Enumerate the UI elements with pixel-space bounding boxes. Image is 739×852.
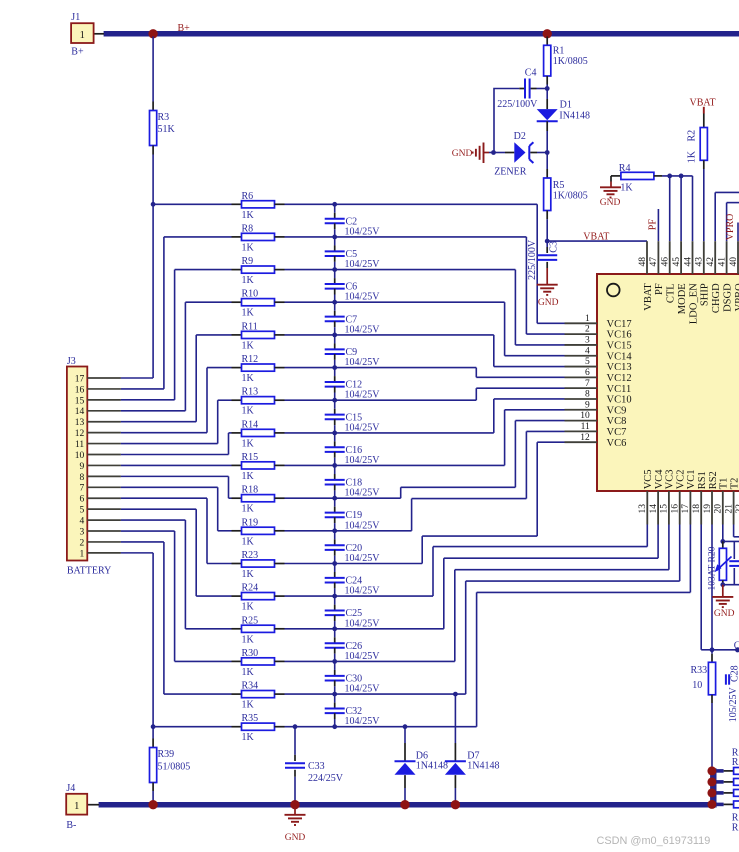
junction C4/D2/GND bbox=[491, 150, 496, 155]
svg-text:12: 12 bbox=[75, 429, 85, 439]
capacitor C29 clipped at right edge bbox=[733, 541, 735, 559]
svg-text:BATTERY: BATTERY bbox=[67, 566, 111, 577]
svg-text:PF: PF bbox=[654, 283, 665, 295]
svg-text:IN4148: IN4148 bbox=[559, 111, 590, 122]
resistor R23 1K bbox=[232, 563, 242, 565]
wire B- bus bbox=[99, 802, 717, 808]
wire row R9 to IC pin 3 bbox=[285, 269, 516, 271]
svg-text:R24: R24 bbox=[242, 583, 259, 594]
svg-text:10: 10 bbox=[75, 451, 85, 461]
junction C33 on row R35 bbox=[293, 724, 298, 729]
resistor R5 1K/0805 bbox=[546, 153, 548, 170]
junction row R25 at capacitor column bbox=[332, 626, 337, 631]
junction branch 2 bbox=[707, 777, 716, 786]
wire J3 pin16 to row R8 bbox=[121, 388, 164, 390]
junction row R8 at capacitor column bbox=[332, 235, 337, 240]
svg-text:RS1: RS1 bbox=[697, 471, 708, 489]
capacitor C19 104/25V bbox=[334, 498, 336, 507]
svg-text:104/25V: 104/25V bbox=[345, 488, 381, 499]
svg-text:VC1: VC1 bbox=[686, 469, 697, 489]
svg-text:VC10: VC10 bbox=[607, 395, 632, 406]
IC U1 pin 18 RS1 bbox=[700, 491, 702, 525]
wire J3 pin8 to row R18 bbox=[121, 475, 229, 477]
wire row R18 to IC pin 10 bbox=[285, 497, 401, 499]
svg-text:VC13: VC13 bbox=[607, 362, 632, 373]
svg-text:CTL: CTL bbox=[666, 283, 677, 303]
svg-text:GND: GND bbox=[714, 609, 735, 619]
svg-text:VC16: VC16 bbox=[607, 330, 632, 341]
wire J3 pin5 to row R24 bbox=[121, 508, 196, 510]
wire RS node to right edge C27 bbox=[712, 649, 739, 651]
svg-text:R6: R6 bbox=[242, 191, 254, 202]
svg-text:GND: GND bbox=[452, 149, 473, 159]
svg-text:9: 9 bbox=[585, 400, 590, 410]
wire IC pin 41 to right edge bbox=[726, 203, 728, 242]
ground symbol left of D2 bbox=[483, 143, 485, 164]
capacitor C26 104/25V bbox=[334, 629, 336, 638]
capacitor C12 104/25V bbox=[334, 368, 336, 377]
svg-text:224/25V: 224/25V bbox=[308, 773, 344, 784]
wire J3 pin10 to row R14 bbox=[121, 454, 229, 456]
diode D6 1N4148 bbox=[404, 727, 406, 743]
sense resistor branch 3 bbox=[713, 791, 723, 795]
wire J3 pin7 to row R19 bbox=[121, 486, 218, 488]
wire row R34 to IC pin 16 bbox=[285, 693, 466, 695]
junction R4 line pin45 bbox=[679, 174, 684, 179]
svg-text:4: 4 bbox=[585, 346, 590, 356]
wire row R6 to IC pin 1 bbox=[285, 203, 538, 205]
wire J3 pin6 to row R23 bbox=[121, 497, 207, 499]
wire IC pin 40 VPRO bbox=[737, 223, 739, 242]
IC U1 pin 3 VC15 bbox=[565, 344, 598, 346]
svg-text:10: 10 bbox=[580, 411, 590, 421]
resistor R13 1K bbox=[232, 399, 242, 401]
svg-text:15: 15 bbox=[75, 396, 85, 406]
svg-text:R8: R8 bbox=[242, 223, 254, 234]
wire row R14 to IC pin 8 bbox=[285, 432, 494, 434]
svg-text:44: 44 bbox=[683, 257, 693, 267]
IC U1 pin 16 VC2 bbox=[679, 491, 681, 525]
resistor R24 1K bbox=[232, 595, 242, 597]
svg-text:R1: R1 bbox=[553, 46, 565, 57]
svg-text:104/25V: 104/25V bbox=[345, 651, 381, 662]
wire IC pin 42 to right edge bbox=[714, 192, 716, 241]
svg-text:1N4148: 1N4148 bbox=[467, 760, 499, 771]
ground symbol at R20 bbox=[722, 585, 724, 597]
svg-text:225/100V: 225/100V bbox=[527, 239, 538, 280]
svg-text:3: 3 bbox=[585, 336, 590, 346]
wire row R19 to IC pin 11 bbox=[285, 530, 412, 532]
resistor R34 1K bbox=[232, 693, 242, 695]
junction R39 on B- bus bbox=[148, 800, 157, 809]
svg-text:VC15: VC15 bbox=[607, 341, 632, 352]
wire row R35 to IC pin 17 bbox=[285, 726, 477, 728]
svg-text:1K: 1K bbox=[242, 438, 255, 449]
svg-text:1K: 1K bbox=[242, 569, 255, 580]
svg-text:104/25V: 104/25V bbox=[345, 357, 381, 368]
svg-text:6: 6 bbox=[585, 368, 590, 378]
svg-text:R23: R23 bbox=[242, 550, 259, 561]
svg-text:VC8: VC8 bbox=[607, 416, 627, 427]
svg-text:105/25V: 105/25V bbox=[728, 687, 739, 723]
junction row R19 at capacitor column bbox=[332, 528, 337, 533]
svg-text:104/25V: 104/25V bbox=[345, 520, 381, 531]
svg-text:1K: 1K bbox=[242, 700, 255, 711]
resistor R12 1K bbox=[232, 367, 242, 369]
junction row R24 at capacitor column bbox=[332, 594, 337, 599]
svg-text:9: 9 bbox=[79, 462, 84, 472]
svg-text:GND: GND bbox=[285, 833, 306, 843]
wire J3 pin17 to row R6 bbox=[121, 377, 153, 379]
svg-text:5: 5 bbox=[79, 506, 84, 516]
sense resistor branch 1 bbox=[713, 769, 723, 773]
svg-text:8: 8 bbox=[585, 390, 590, 400]
svg-text:17: 17 bbox=[681, 504, 691, 514]
IC U1 pin 46 CTL bbox=[669, 241, 671, 274]
svg-text:13: 13 bbox=[75, 418, 85, 428]
svg-text:51K: 51K bbox=[158, 124, 176, 135]
svg-text:R14: R14 bbox=[242, 419, 259, 430]
IC U1 pin 48 VBAT bbox=[646, 241, 648, 274]
connector J1 bbox=[94, 33, 104, 35]
resistor R8 1K bbox=[232, 236, 242, 238]
svg-text:7: 7 bbox=[79, 484, 84, 494]
resistor R14 1K bbox=[232, 432, 242, 434]
svg-text:RS2: RS2 bbox=[708, 471, 719, 489]
connector J4 bbox=[87, 804, 99, 806]
svg-text:1K: 1K bbox=[242, 406, 255, 417]
svg-text:16: 16 bbox=[75, 385, 85, 395]
wire row R15 to IC pin 9 bbox=[285, 464, 505, 466]
junction row R13 at capacitor column bbox=[332, 398, 337, 403]
resistor R1 1K/0805 bbox=[546, 37, 548, 46]
svg-text:1K: 1K bbox=[620, 182, 633, 193]
svg-text:B+: B+ bbox=[178, 23, 191, 34]
resistor R11 1K bbox=[232, 334, 242, 336]
wire row R30 to IC pin 15 bbox=[285, 660, 455, 662]
svg-text:1: 1 bbox=[74, 801, 79, 812]
svg-text:R30: R30 bbox=[242, 648, 259, 659]
svg-text:17: 17 bbox=[75, 374, 85, 384]
diode D1 IN4148 bbox=[546, 89, 548, 100]
svg-text:1K: 1K bbox=[242, 504, 255, 515]
svg-text:SHIP: SHIP bbox=[700, 283, 711, 306]
svg-text:104/25V: 104/25V bbox=[345, 586, 381, 597]
svg-text:1K: 1K bbox=[242, 340, 255, 351]
wire row R25 to IC pin 14 bbox=[285, 628, 444, 630]
svg-text:104/25V: 104/25V bbox=[345, 618, 381, 629]
junction T1/R20 top bbox=[720, 539, 725, 544]
svg-text:41: 41 bbox=[717, 257, 727, 267]
svg-text:12: 12 bbox=[580, 433, 590, 443]
svg-text:3: 3 bbox=[79, 527, 84, 537]
resistor R19 1K bbox=[232, 530, 242, 532]
svg-text:R32: R32 bbox=[732, 822, 739, 833]
junction on B+ bus at R3 bbox=[148, 29, 157, 38]
svg-text:R4: R4 bbox=[619, 163, 631, 174]
junction R20 bottom bbox=[720, 582, 725, 587]
IC U1 pin 1 VC17 bbox=[565, 322, 598, 324]
svg-text:C3: C3 bbox=[549, 241, 560, 253]
svg-text:J1: J1 bbox=[71, 12, 80, 23]
capacitor C2 104/25V bbox=[334, 204, 336, 213]
svg-text:R13: R13 bbox=[242, 387, 259, 398]
svg-text:R34: R34 bbox=[242, 681, 259, 692]
svg-text:B+: B+ bbox=[71, 47, 84, 58]
svg-text:VBAT: VBAT bbox=[690, 97, 716, 108]
svg-text:1K/0805: 1K/0805 bbox=[553, 191, 588, 202]
IC U1 pin 15 VC3 bbox=[668, 491, 670, 525]
capacitor C15 104/25V bbox=[334, 400, 336, 409]
svg-text:VC12: VC12 bbox=[607, 373, 632, 384]
svg-text:104/25V: 104/25V bbox=[345, 553, 381, 564]
svg-text:T1: T1 bbox=[719, 478, 730, 490]
svg-text:VC7: VC7 bbox=[607, 427, 627, 438]
svg-text:1K: 1K bbox=[242, 667, 255, 678]
wire T1 to R20 bbox=[722, 525, 724, 542]
junction D6 on B- bus bbox=[400, 800, 409, 809]
IC U1 pin 13 VC5 bbox=[646, 491, 648, 525]
junction C33 on B- bus bbox=[290, 800, 299, 809]
resistor R18 1K bbox=[232, 497, 242, 499]
wire J3 pin15 to row R9 bbox=[121, 399, 175, 401]
wire RS2 down bbox=[711, 525, 713, 654]
svg-text:1K: 1K bbox=[242, 373, 255, 384]
svg-text:C4: C4 bbox=[525, 67, 537, 78]
svg-text:19: 19 bbox=[703, 504, 713, 514]
IC U1 pin 19 RS2 bbox=[711, 491, 713, 525]
sense resistor branch 4 bbox=[713, 803, 723, 807]
wire J3 pin2 to row R34 bbox=[121, 541, 164, 543]
svg-text:R15: R15 bbox=[242, 452, 259, 463]
IC U1 pin 9 VC9 bbox=[565, 409, 598, 411]
svg-text:GND: GND bbox=[600, 198, 621, 208]
wire J3 pin1 to row R35 bbox=[121, 552, 153, 554]
svg-text:48: 48 bbox=[638, 257, 648, 267]
svg-text:PF: PF bbox=[648, 219, 659, 231]
junction R4 line pin46 bbox=[667, 174, 672, 179]
resistor R15 1K bbox=[232, 464, 242, 466]
svg-text:VC11: VC11 bbox=[607, 384, 632, 395]
wire PF on IC pin 47 bbox=[657, 209, 659, 241]
junction branch 4 bbox=[707, 800, 716, 809]
junction row R23 at capacitor column bbox=[332, 561, 337, 566]
svg-text:18: 18 bbox=[692, 504, 702, 514]
svg-text:104/25V: 104/25V bbox=[345, 455, 381, 466]
junction R5/C3/VBAT bbox=[545, 239, 550, 244]
svg-text:51/0805: 51/0805 bbox=[158, 762, 191, 773]
svg-text:CSDN @m0_61973119: CSDN @m0_61973119 bbox=[597, 835, 711, 847]
svg-text:104/25V: 104/25V bbox=[345, 390, 381, 401]
svg-text:20: 20 bbox=[714, 504, 724, 514]
svg-text:VC2: VC2 bbox=[676, 469, 687, 489]
svg-text:11: 11 bbox=[581, 422, 590, 432]
junction row R18 at capacitor column bbox=[332, 496, 337, 501]
svg-text:R39: R39 bbox=[158, 749, 175, 760]
svg-text:VPRO: VPRO bbox=[725, 214, 736, 241]
wire J3 pin14 to row R10 bbox=[121, 410, 185, 412]
svg-text:4: 4 bbox=[79, 516, 84, 526]
svg-text:104/25V: 104/25V bbox=[345, 684, 381, 695]
svg-text:R35: R35 bbox=[242, 713, 259, 724]
capacitor C18 104/25V bbox=[334, 465, 336, 474]
IC U1 pin 14 VC4 bbox=[657, 491, 659, 525]
svg-text:R33: R33 bbox=[691, 665, 708, 676]
svg-text:1: 1 bbox=[79, 549, 84, 559]
junction row R10 at capacitor column bbox=[332, 300, 337, 305]
wire J3 pin12 to row R12 bbox=[121, 432, 207, 434]
svg-text:R5: R5 bbox=[553, 180, 565, 191]
IC U1 pin 41 DSGD bbox=[726, 241, 728, 274]
svg-text:R3: R3 bbox=[158, 112, 170, 123]
svg-text:22: 22 bbox=[735, 504, 739, 514]
junction row R14 at capacitor column bbox=[332, 431, 337, 436]
IC U1 pin 12 VC6 bbox=[565, 441, 598, 443]
wire R4 to IC pins 46 45 44 bbox=[662, 175, 693, 177]
junction row R35 at capacitor column bbox=[332, 724, 337, 729]
svg-text:VBAT: VBAT bbox=[643, 283, 654, 311]
svg-text:VC5: VC5 bbox=[643, 469, 654, 489]
ground symbol at R4 bbox=[610, 176, 612, 182]
svg-text:47: 47 bbox=[649, 257, 659, 267]
svg-text:R26: R26 bbox=[732, 757, 739, 768]
svg-text:R9: R9 bbox=[242, 256, 254, 267]
ground symbol below C3 bbox=[537, 284, 558, 286]
junction row R9 at capacitor column bbox=[332, 267, 337, 272]
svg-text:C28: C28 bbox=[729, 665, 739, 682]
svg-text:5: 5 bbox=[585, 357, 590, 367]
junction row R15 at capacitor column bbox=[332, 463, 337, 468]
wire B+ bus bbox=[104, 31, 739, 37]
junction on B+ bus at R1 bbox=[543, 29, 552, 38]
thermistor R20 103AT bbox=[722, 541, 724, 548]
svg-text:D2: D2 bbox=[514, 131, 526, 142]
IC U1 pin 2 VC16 bbox=[565, 333, 598, 335]
connector J3 BATTERY bbox=[67, 367, 87, 561]
junction row R30 at capacitor column bbox=[332, 659, 337, 664]
svg-text:VC4: VC4 bbox=[654, 469, 665, 490]
svg-text:225/100V: 225/100V bbox=[497, 99, 538, 110]
wire row R23 to IC pin 12 bbox=[285, 563, 423, 565]
resistor R39 51/0805 bbox=[152, 727, 154, 739]
IC U1 pin 43 SHIP bbox=[703, 241, 705, 274]
svg-text:16: 16 bbox=[671, 504, 681, 514]
svg-text:VC3: VC3 bbox=[665, 469, 676, 489]
capacitor C33 224/25V bbox=[294, 727, 296, 755]
resistor R2 1K bbox=[703, 114, 705, 128]
IC U1 pin 10 VC8 bbox=[565, 420, 598, 422]
svg-text:1K: 1K bbox=[242, 634, 255, 645]
junction branch 3 bbox=[707, 788, 716, 797]
wire J3 pin3 to row R30 bbox=[121, 530, 175, 532]
resistor R6 1K bbox=[232, 203, 242, 205]
IC U1 pin 17 VC1 bbox=[689, 491, 691, 525]
wire row R10 to IC pin 4 bbox=[285, 301, 505, 303]
capacitor C7 104/25V bbox=[334, 302, 336, 311]
IC U1 battery monitor bbox=[597, 274, 739, 491]
svg-text:14: 14 bbox=[75, 407, 85, 417]
IC U1 pin 8 VC10 bbox=[565, 398, 598, 400]
svg-text:8: 8 bbox=[79, 473, 84, 483]
resistor R9 1K bbox=[232, 269, 242, 271]
resistor R4 1K bbox=[611, 175, 620, 177]
svg-text:CHGD: CHGD bbox=[711, 283, 722, 313]
wire row R13 to IC pin 7 bbox=[285, 399, 477, 401]
junction D6 on row R35 bbox=[403, 724, 408, 729]
wire row R24 to IC pin 13 bbox=[285, 595, 434, 597]
IC U1 pin 21 T2 bbox=[733, 491, 735, 525]
svg-text:43: 43 bbox=[695, 257, 705, 267]
junction branch 1 bbox=[707, 766, 716, 775]
wire row R11 to IC pin 5 bbox=[285, 334, 494, 336]
svg-text:R2: R2 bbox=[686, 130, 697, 142]
svg-text:VC17: VC17 bbox=[607, 319, 632, 330]
capacitor C25 104/25V bbox=[334, 596, 336, 605]
svg-text:104/25V: 104/25V bbox=[345, 259, 381, 270]
svg-text:104/25V: 104/25V bbox=[345, 226, 381, 237]
svg-text:104/25V: 104/25V bbox=[345, 422, 381, 433]
IC U1 pin 4 VC14 bbox=[565, 355, 598, 357]
zener diode D2 bbox=[494, 152, 506, 154]
sense resistor branch 2 bbox=[713, 780, 723, 784]
svg-text:R11: R11 bbox=[242, 321, 258, 332]
wire row R8 to IC pin 2 bbox=[285, 236, 527, 238]
wire J3 pin13 to row R11 bbox=[121, 421, 196, 423]
svg-text:C27: C27 bbox=[734, 641, 739, 652]
svg-text:1K: 1K bbox=[242, 471, 255, 482]
svg-text:VC6: VC6 bbox=[607, 438, 627, 449]
svg-text:J3: J3 bbox=[67, 356, 76, 367]
capacitor C28 105/25V bbox=[725, 674, 727, 684]
capacitor C30 104/25V bbox=[334, 661, 336, 670]
svg-text:1K: 1K bbox=[242, 308, 255, 319]
junction node R3/R6/J3-17 bbox=[151, 202, 156, 207]
svg-text:R19: R19 bbox=[242, 517, 259, 528]
resistor R30 1K bbox=[232, 660, 242, 662]
svg-text:D1: D1 bbox=[560, 100, 572, 111]
wire J3 pin4 to row R25 bbox=[121, 519, 185, 521]
junction D1/D2/R5 bbox=[545, 150, 550, 155]
junction row R12 at capacitor column bbox=[332, 365, 337, 370]
svg-text:1K: 1K bbox=[242, 275, 255, 286]
svg-text:2: 2 bbox=[79, 538, 84, 548]
svg-text:R25: R25 bbox=[242, 615, 259, 626]
svg-text:46: 46 bbox=[661, 257, 671, 267]
capacitor C6 104/25V bbox=[334, 270, 336, 279]
wire J3 pin9 to row R15 bbox=[121, 464, 232, 466]
IC U1 pin 47 PF bbox=[657, 241, 659, 274]
svg-text:21: 21 bbox=[724, 504, 734, 514]
svg-text:1K: 1K bbox=[686, 150, 697, 163]
capacitor C24 104/25V bbox=[334, 564, 336, 573]
svg-text:13: 13 bbox=[638, 504, 648, 514]
svg-text:LDO_EN: LDO_EN bbox=[688, 283, 699, 324]
wire T2 to right edge bbox=[733, 525, 735, 537]
svg-text:MODE: MODE bbox=[677, 283, 688, 314]
junction D7 on row R34 bbox=[453, 692, 458, 697]
IC U1 pin 20 T1 bbox=[722, 491, 724, 525]
junction D7 on B- bus bbox=[451, 800, 460, 809]
svg-text:R10: R10 bbox=[242, 289, 259, 300]
svg-text:104/25V: 104/25V bbox=[345, 716, 381, 727]
svg-text:ZENER: ZENER bbox=[494, 167, 527, 178]
capacitor C5 104/25V bbox=[334, 237, 336, 246]
IC U1 pin 7 VC11 bbox=[565, 387, 598, 389]
IC U1 pin 40 VPRO bbox=[737, 241, 739, 274]
svg-text:J4: J4 bbox=[66, 783, 75, 794]
wire row R12 to IC pin 6 bbox=[285, 367, 477, 369]
resistor R10 1K bbox=[232, 301, 242, 303]
